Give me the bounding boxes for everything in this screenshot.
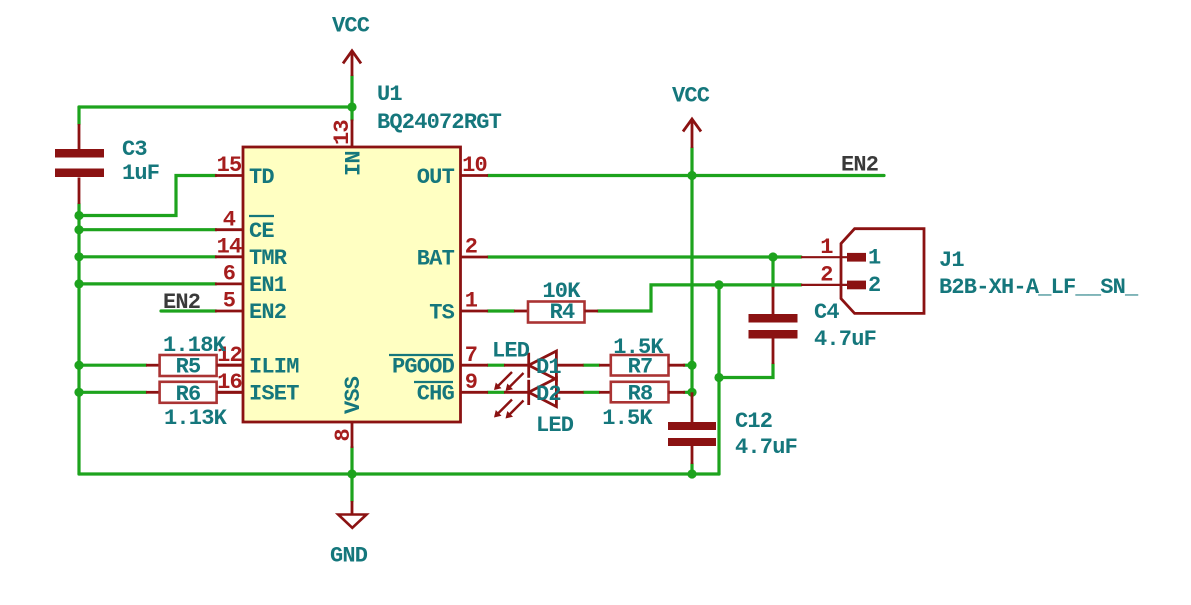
- svg-text:1: 1: [868, 246, 881, 271]
- svg-text:EN1: EN1: [249, 273, 287, 298]
- wire D2 to R8: [584, 391, 599, 394]
- resistor R6: [146, 382, 243, 403]
- LED D2: [504, 378, 584, 407]
- svg-text:10: 10: [462, 153, 487, 178]
- wire TD net: [79, 176, 216, 216]
- wire C12 bottom link: [690, 464, 693, 474]
- wire vertical J1 pin2 to bus: [717, 285, 720, 474]
- wire left bus vertical: [77, 204, 80, 474]
- capacitor C12: [668, 392, 716, 464]
- power VCC symbol 1: [343, 51, 361, 76]
- svg-text:IN: IN: [342, 151, 367, 176]
- junction R7 right: [687, 361, 696, 370]
- junction EN1: [74, 279, 83, 288]
- capacitor C4: [749, 287, 798, 364]
- svg-text:R5: R5: [176, 355, 201, 380]
- svg-text:1uF: 1uF: [122, 161, 159, 186]
- wire R8 to rail: [684, 391, 692, 394]
- svg-text:VCC: VCC: [672, 84, 710, 109]
- junction at VCC1/IN: [347, 102, 356, 111]
- svg-text:6: 6: [223, 262, 235, 287]
- svg-text:R7: R7: [628, 355, 653, 380]
- junction R8 right: [687, 388, 696, 397]
- svg-text:7: 7: [465, 343, 477, 368]
- wire CE net: [79, 228, 216, 231]
- svg-text:C3: C3: [122, 137, 147, 162]
- resistor R4: [514, 302, 598, 323]
- svg-text:VCC: VCC: [332, 14, 370, 39]
- wire C4 bottom link: [719, 364, 773, 378]
- svg-text:2: 2: [465, 235, 477, 260]
- svg-text:ISET: ISET: [249, 382, 299, 407]
- ground symbol: [338, 501, 366, 528]
- wire BAT net: [488, 255, 801, 258]
- svg-text:GND: GND: [330, 544, 368, 569]
- LED D1: [504, 351, 584, 380]
- power VCC symbol 2: [683, 119, 701, 148]
- resistor R8: [599, 382, 685, 403]
- op IC U1 BQ24072RGT body: [243, 147, 461, 422]
- junction C3 bottom / TD: [74, 211, 83, 220]
- wire OUT net horizontal: [488, 174, 884, 177]
- U1 pin 13 stub top: [351, 120, 354, 148]
- svg-text:1.13K: 1.13K: [164, 406, 228, 431]
- svg-text:4.7uF: 4.7uF: [735, 435, 797, 460]
- connector J1 body: [841, 229, 924, 314]
- wire EN1 net: [79, 282, 216, 285]
- D2 light arrows: [494, 400, 524, 419]
- wire R4 to J1 pin2: [598, 285, 801, 311]
- junction R5: [74, 361, 83, 370]
- wire VCC vertical rail: [690, 176, 693, 393]
- wire bottom GND bus horizontal: [79, 472, 719, 475]
- wire VCC1 drop to IN pin: [350, 76, 353, 120]
- svg-text:EN2: EN2: [249, 300, 286, 325]
- wire C4 top lead link: [771, 257, 774, 287]
- svg-text:TS: TS: [429, 301, 454, 326]
- svg-text:13: 13: [330, 120, 355, 145]
- junction CE: [74, 225, 83, 234]
- J1 pin 2: [801, 281, 866, 290]
- svg-text:8: 8: [331, 429, 356, 442]
- junction OUT/VCC2: [687, 171, 696, 180]
- svg-text:TD: TD: [249, 165, 274, 190]
- svg-text:BQ24072RGT: BQ24072RGT: [377, 110, 502, 135]
- svg-text:C12: C12: [735, 409, 772, 434]
- svg-text:14: 14: [217, 235, 242, 260]
- resistor R7: [599, 355, 685, 376]
- svg-text:D2: D2: [536, 382, 561, 407]
- wire PGOOD to D1: [488, 364, 504, 367]
- svg-text:TMR: TMR: [249, 246, 288, 271]
- capacitor C3: [55, 124, 104, 204]
- wire C3 top lead link: [77, 107, 80, 124]
- svg-text:OUT: OUT: [417, 165, 455, 190]
- svg-text:1: 1: [820, 235, 833, 260]
- svg-text:PGOOD: PGOOD: [392, 355, 455, 380]
- svg-text:4.7uF: 4.7uF: [814, 327, 876, 352]
- resistor R5: [146, 355, 243, 376]
- svg-text:R4: R4: [550, 300, 575, 325]
- svg-text:R8: R8: [628, 382, 653, 407]
- svg-text:R6: R6: [176, 382, 201, 407]
- wire VCC2 drop: [690, 148, 693, 176]
- svg-text:1: 1: [465, 289, 478, 314]
- svg-text:EN2: EN2: [163, 290, 200, 315]
- J1 pin 1: [801, 253, 866, 262]
- junction TMR: [74, 252, 83, 261]
- svg-text:VSS: VSS: [341, 376, 366, 414]
- junction C4 bottom: [714, 373, 723, 382]
- svg-text:5: 5: [223, 289, 236, 314]
- junction TS-route/J1 pin2: [714, 280, 723, 289]
- svg-text:B2B-XH-A_LF__SN_: B2B-XH-A_LF__SN_: [939, 275, 1139, 300]
- wire CHG to D2: [488, 391, 504, 394]
- wire R6 left: [79, 391, 146, 394]
- svg-text:J1: J1: [939, 248, 964, 273]
- U1 pin stubs right: [461, 176, 489, 393]
- junction BAT/C4/J1: [768, 252, 777, 261]
- svg-text:2: 2: [868, 273, 880, 298]
- junction VSS/bus: [347, 469, 356, 478]
- wire R7 to rail: [684, 364, 692, 367]
- wire EN2 local net: [161, 309, 216, 312]
- svg-text:C4: C4: [814, 300, 839, 325]
- U1 pin 8 stub bottom: [351, 422, 354, 448]
- D1 light arrows: [494, 372, 524, 391]
- svg-text:ILIM: ILIM: [249, 355, 299, 380]
- svg-text:CHG: CHG: [417, 382, 455, 407]
- wire D1 to R7: [584, 364, 599, 367]
- svg-text:15: 15: [217, 153, 242, 178]
- svg-text:9: 9: [465, 370, 477, 395]
- wire TMR net: [79, 255, 216, 258]
- svg-text:2: 2: [820, 263, 832, 288]
- svg-text:BAT: BAT: [417, 247, 455, 272]
- wire top VCC-to-IN horizontal: [79, 105, 352, 108]
- junction C12 bottom/bus: [687, 469, 696, 478]
- wire bus to GND symbol: [350, 474, 353, 501]
- junction R6: [74, 388, 83, 397]
- wire VSS to bus: [350, 447, 353, 474]
- wire TS to R4: [488, 309, 514, 312]
- svg-text:1.5K: 1.5K: [602, 406, 653, 431]
- svg-text:4: 4: [223, 207, 236, 232]
- svg-text:CE: CE: [249, 219, 274, 244]
- svg-text:U1: U1: [377, 82, 402, 107]
- svg-text:LED: LED: [492, 339, 530, 364]
- wire R5 left: [79, 364, 146, 367]
- svg-text:EN2: EN2: [841, 153, 878, 178]
- U1 pin stubs left: [215, 176, 243, 393]
- svg-text:LED: LED: [536, 413, 574, 438]
